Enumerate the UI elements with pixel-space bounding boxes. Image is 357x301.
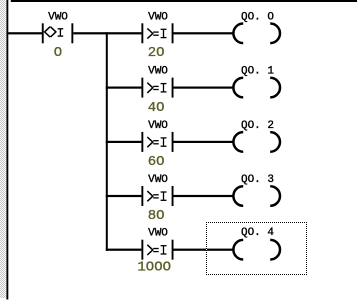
svg-text:O: O: [54, 45, 62, 61]
wire rail to contact C1: [6, 32, 42, 34]
svg-text:QO. 1: QO. 1: [241, 66, 274, 78]
coil Q0.0 arcs: [233, 24, 280, 44]
svg-text:QO. 3: QO. 3: [241, 174, 274, 186]
branch vertical line: [106, 32, 108, 251]
wire C3 to coil Q0.1: [174, 87, 234, 89]
contact C6 symbol >=I: [147, 245, 166, 255]
svg-text:VWO: VWO: [148, 11, 168, 23]
coil Q0.1 arcs: [233, 78, 280, 98]
svg-text:QO. 2: QO. 2: [241, 120, 274, 132]
wire C4 to coil Q0.2: [174, 141, 234, 143]
svg-text:VWO: VWO: [48, 11, 68, 23]
svg-text:VWO: VWO: [148, 228, 168, 240]
wire branch to contact C4: [106, 141, 142, 143]
svg-text:2O: 2O: [148, 45, 165, 61]
svg-text:VWO: VWO: [148, 66, 168, 78]
left dithered margin strip: [0, 0, 6, 298]
coil Q0.3 arcs: [233, 186, 280, 206]
contact C6 VW0 >=I left bar: [141, 240, 143, 260]
contact C5 right bar: [172, 186, 174, 206]
top border line: [11, 0, 357, 2]
left power rail: [6, 0, 8, 300]
contact C3 VW0 >=I left bar: [141, 78, 143, 98]
svg-text:1OOO: 1OOO: [137, 259, 171, 275]
contact C3 right bar: [172, 78, 174, 98]
coil Q0.2 arcs: [233, 132, 280, 152]
wire branch to contact C5: [106, 195, 142, 197]
svg-text:QO. O: QO. O: [241, 11, 274, 23]
contact C4 symbol >=I: [147, 137, 166, 147]
contact C1 symbol <> diamond: [45, 27, 56, 37]
contact C4 VW0 >=I left bar: [141, 132, 143, 152]
coil Q0.4 arcs: [233, 240, 280, 260]
wire C2 to coil Q0.0: [174, 32, 234, 34]
contact C4 right bar: [172, 132, 174, 152]
wire branch to contact C3: [106, 87, 142, 89]
contact C1 VW0 <>I left bar: [42, 23, 44, 43]
wire C6 to coil Q0.4: [174, 249, 234, 251]
contact C6 right bar: [172, 240, 174, 260]
contact C5 VW0 >=I left bar: [141, 186, 143, 206]
contact C2 right bar: [172, 23, 174, 43]
wire branch to contact C6: [106, 249, 142, 251]
contact C2 symbol >=I: [147, 28, 166, 38]
svg-text:8O: 8O: [148, 208, 165, 224]
contact C1 symbol I: [58, 29, 64, 36]
contact C3 symbol >=I: [147, 83, 166, 93]
wire C1 to contact C2 through branch junction: [73, 32, 141, 34]
svg-text:VWO: VWO: [148, 120, 168, 132]
svg-text:6O: 6O: [148, 154, 165, 170]
svg-text:VWO: VWO: [148, 174, 168, 186]
contact C5 symbol >=I: [147, 191, 166, 201]
svg-text:QO. 4: QO. 4: [241, 227, 274, 239]
svg-text:4O: 4O: [148, 100, 165, 116]
wire C5 to coil Q0.3: [174, 195, 234, 197]
contact C1 right bar: [71, 23, 73, 43]
contact C2 VW0 >=I left bar: [141, 23, 143, 43]
selection dotted rectangle around coil Q0.4: [206, 222, 307, 275]
